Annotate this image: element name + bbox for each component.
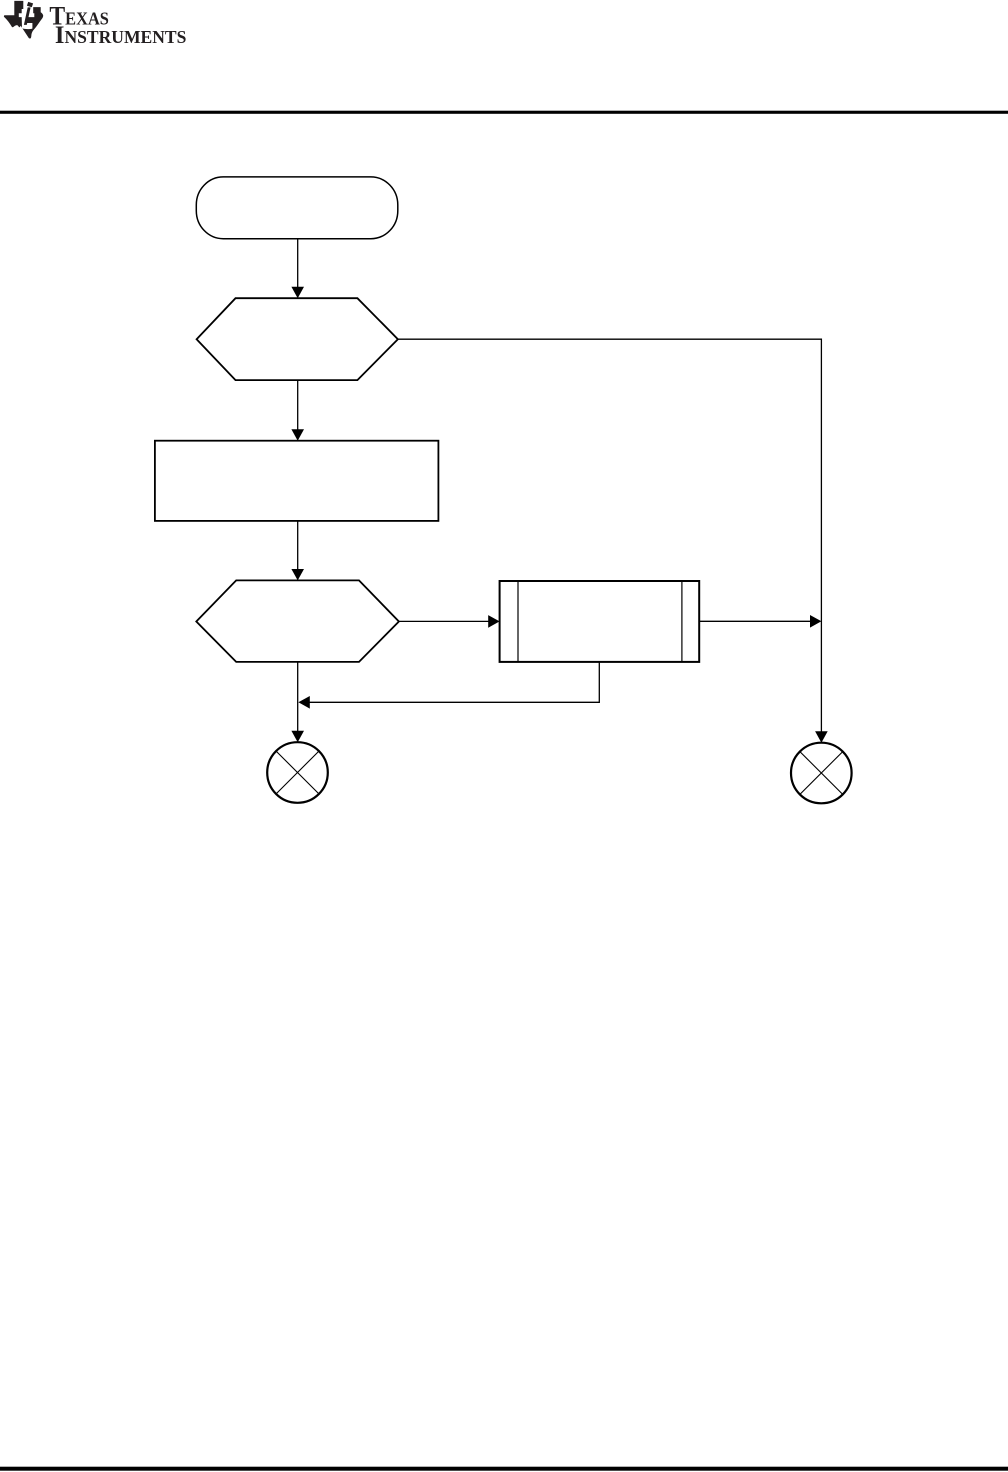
flowchart xyxy=(155,177,852,803)
arrowhead into predefined box xyxy=(488,615,499,628)
arrowhead into right circle xyxy=(815,731,828,742)
white t carved in state xyxy=(19,7,35,29)
hexagon decision 1 xyxy=(197,298,398,380)
wire hex2 to predefined box xyxy=(399,620,489,622)
wire predefined bottom feedback xyxy=(310,662,600,702)
wire predefined right to far column xyxy=(699,620,810,622)
predefined process box xyxy=(500,581,700,662)
wire hex1 right to far column xyxy=(398,339,822,731)
wire hex1 to process rect xyxy=(297,380,299,430)
arrowhead into hex2 xyxy=(291,569,304,580)
arrowhead feedback into vertical wire xyxy=(298,696,309,709)
black italic i stem xyxy=(24,7,31,25)
svg-text:Instruments: Instruments xyxy=(55,22,187,49)
TI logo Texas-state mark xyxy=(4,1,43,39)
arrowhead into left circle xyxy=(291,731,304,742)
i tittle xyxy=(27,2,33,7)
hexagon decision 2 xyxy=(196,580,399,662)
wire stadium to hex1 xyxy=(297,239,299,289)
wire hex2 down to connector circle xyxy=(297,662,299,731)
arrowhead at far column junction xyxy=(810,615,821,628)
arrowhead into rect xyxy=(291,429,304,440)
bottom footer rule xyxy=(0,1467,1008,1471)
top header rule xyxy=(0,111,1008,114)
connector circle right xyxy=(791,743,852,804)
connector circle left xyxy=(267,742,328,803)
arrowhead into hex1 xyxy=(291,287,304,298)
wire rect to hex2 xyxy=(297,521,299,570)
process rectangle xyxy=(155,441,439,521)
terminator stadium xyxy=(196,177,397,239)
